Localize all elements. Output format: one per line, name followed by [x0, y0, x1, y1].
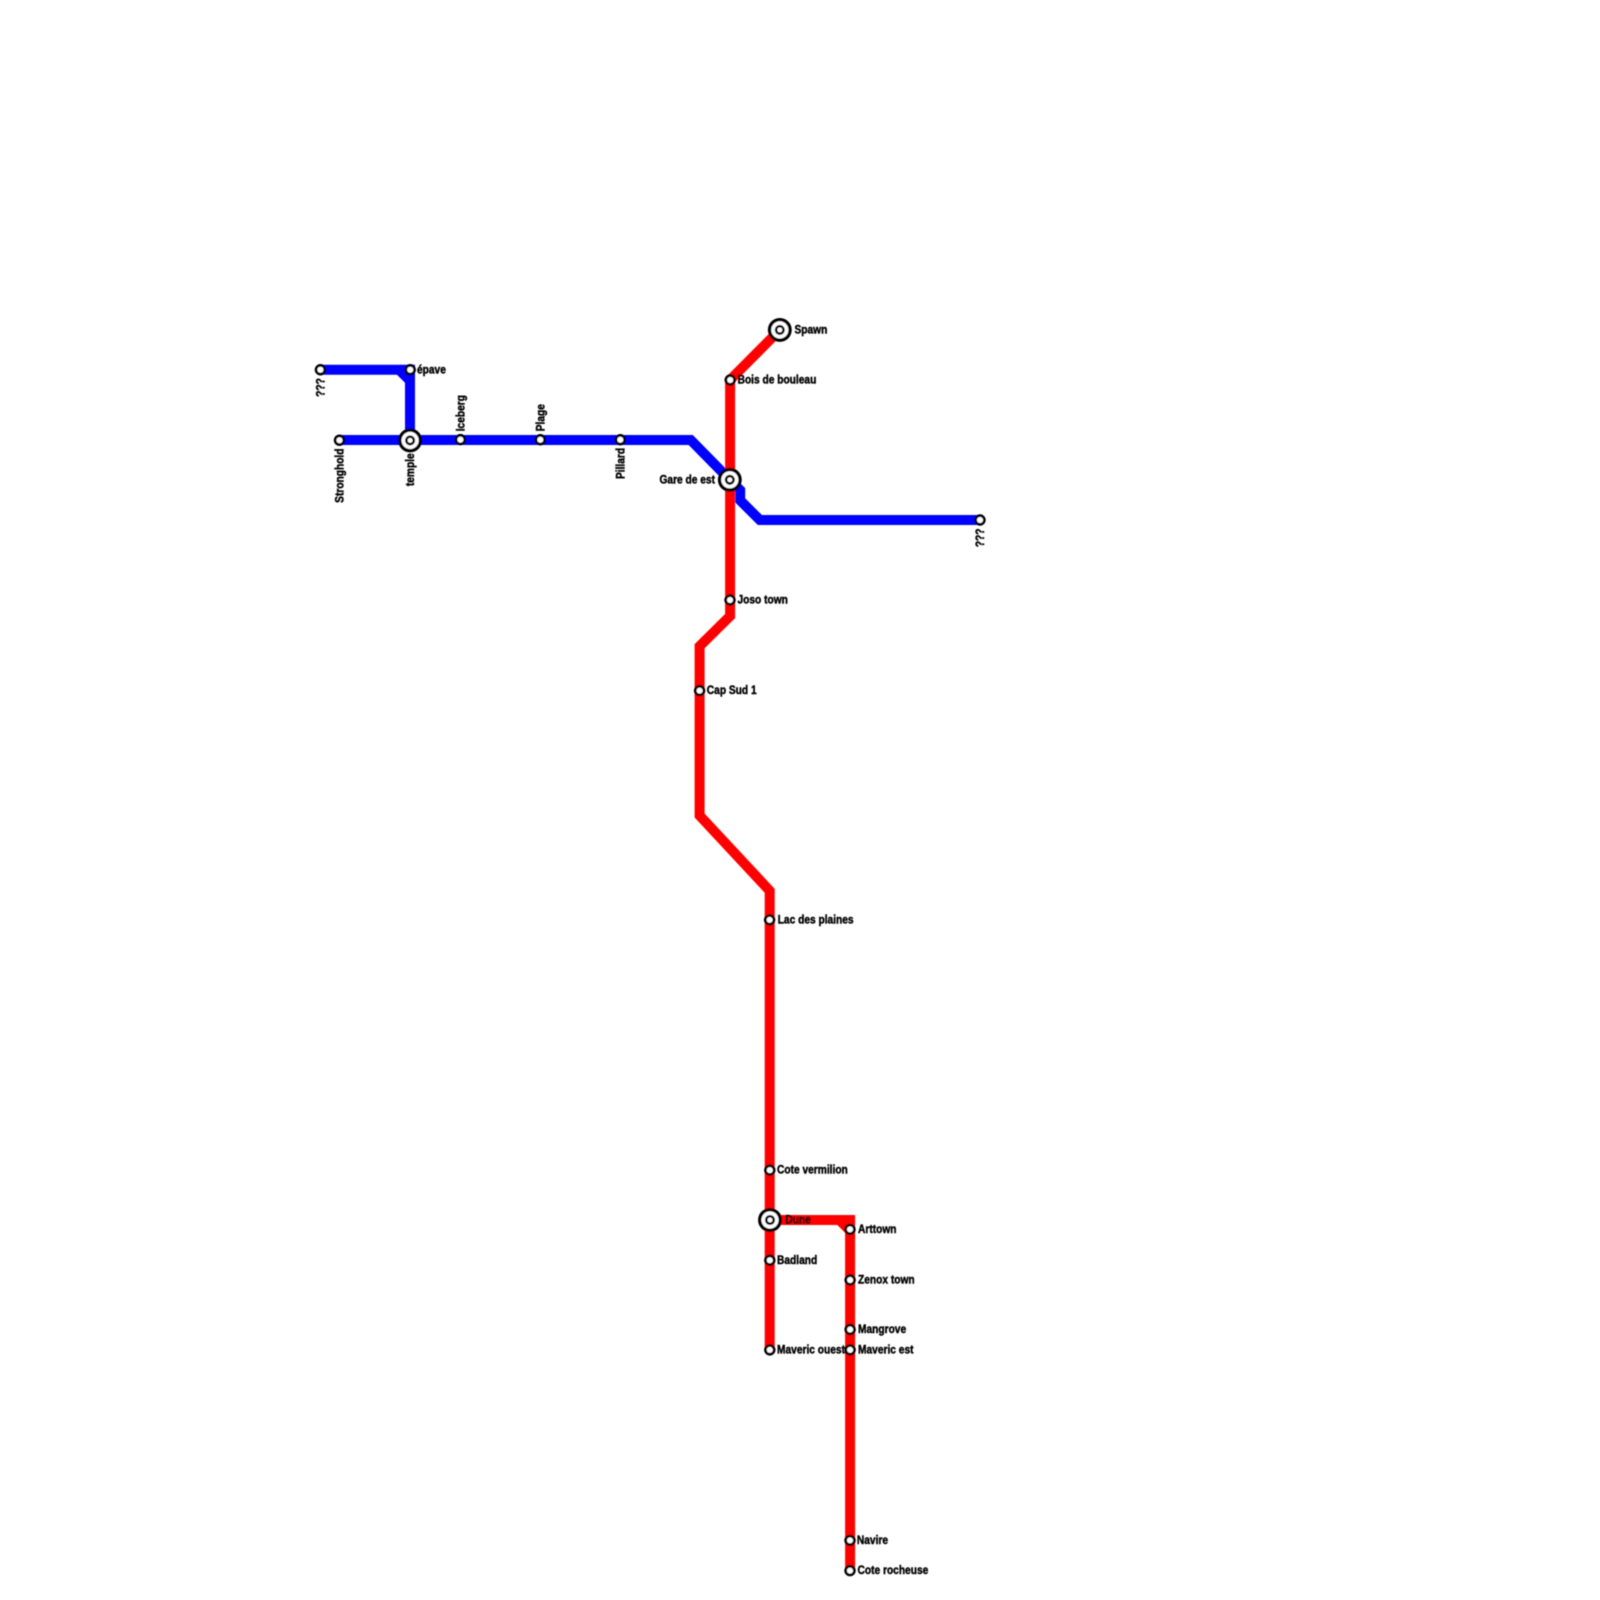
svg-text:Dune: Dune — [785, 1214, 810, 1227]
station Zenox town — [844, 1274, 855, 1285]
svg-text:Gare de est: Gare de est — [659, 474, 715, 487]
corner wedge at epave (inner SW) — [397, 375, 406, 384]
svg-text:Stronghold: Stronghold — [334, 448, 347, 503]
station epave — [405, 364, 416, 375]
red line branch: Dune - Arttown - Zenox town - Mangrove - Maveric est - Navire - Cote rocheuse — [770, 1220, 850, 1571]
svg-text:Zenox town: Zenox town — [858, 1274, 915, 1287]
station Maveric ouest — [764, 1344, 775, 1355]
corner wedge at Dune branch corner (inner SW) — [837, 1225, 846, 1234]
svg-text:Maveric est: Maveric est — [858, 1344, 914, 1357]
svg-text:Badland: Badland — [777, 1254, 817, 1267]
station Iceberg — [455, 434, 466, 445]
station Cote rocheuse — [844, 1565, 855, 1576]
svg-text:Arttown: Arttown — [858, 1223, 897, 1236]
station Arttown — [844, 1224, 855, 1235]
svg-text:épave: épave — [417, 364, 446, 377]
interchange Dune — [758, 1208, 782, 1232]
station Stronghold — [334, 435, 345, 446]
station Lac des plaines — [764, 914, 775, 925]
svg-text:Plage: Plage — [535, 404, 548, 431]
station Plage — [535, 434, 546, 445]
station Cote vermilion — [764, 1164, 775, 1175]
interchange Gare de est — [718, 468, 742, 492]
svg-text:Mangrove: Mangrove — [858, 1323, 906, 1336]
svg-text:Cap Sud 1: Cap Sud 1 — [707, 685, 757, 698]
station Badland — [764, 1255, 775, 1266]
interchange temple — [398, 428, 422, 452]
station Mangrove — [844, 1324, 855, 1335]
svg-text:Spawn: Spawn — [795, 324, 828, 337]
station Bois de bouleau — [725, 374, 736, 385]
station Maveric est — [844, 1344, 855, 1355]
station ??? east — [974, 514, 985, 525]
station ??? north-west — [315, 364, 326, 375]
svg-text:???: ??? — [974, 528, 987, 547]
station Navire — [844, 1535, 855, 1546]
blue line main: Stronghold - temple - Iceberg - Plage - Pillard - Gare de est - ??? — [340, 440, 981, 520]
interchange Spawn — [768, 318, 792, 342]
red line main: Spawn - Bois de bouleau - Joso town - Cap Sud 1 - Lac des plaines - Cote vermilion - Dune - Badland - Maveric ouest — [700, 330, 780, 1350]
svg-text:Lac des plaines: Lac des plaines — [778, 914, 854, 927]
blue line branch: ??? - epave - temple — [320, 370, 410, 441]
station Cap Sud 1 — [694, 685, 705, 696]
svg-text:Navire: Navire — [857, 1534, 888, 1547]
svg-text:Pillard: Pillard — [615, 448, 628, 479]
svg-text:Cote vermilion: Cote vermilion — [777, 1164, 848, 1177]
svg-text:Bois de bouleau: Bois de bouleau — [738, 374, 817, 387]
svg-text:Iceberg: Iceberg — [455, 395, 468, 431]
station Joso town — [724, 594, 735, 605]
svg-text:???: ??? — [315, 378, 328, 397]
svg-text:temple: temple — [404, 453, 417, 486]
svg-text:Cote rocheuse: Cote rocheuse — [858, 1565, 929, 1578]
svg-text:Maveric ouest: Maveric ouest — [777, 1344, 845, 1357]
station Pillard — [615, 434, 626, 445]
svg-text:Joso town: Joso town — [738, 594, 789, 607]
